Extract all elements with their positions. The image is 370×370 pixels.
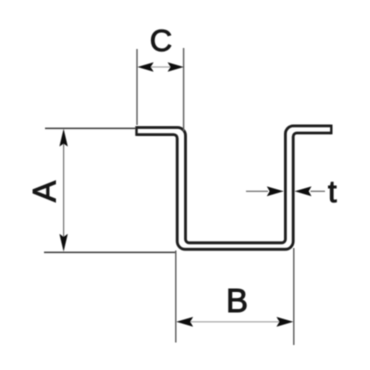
dimension A: bottom extension line [44,251,176,253]
left flange tip end cap [135,126,137,136]
dimension t: right leader line [311,190,326,192]
dimension B: left extension line [175,251,177,343]
dimension C: right extension line [183,48,185,131]
dimension C: right arrowhead [168,62,184,72]
dimension A: top extension line [45,127,136,129]
right flange tip end cap [330,125,332,135]
svg-text:t: t [328,174,337,209]
dimension A: bottom arrowhead [59,234,67,252]
dimension B: left arrowhead [176,317,193,327]
svg-text:B: B [226,282,248,319]
dimension C: dimension line shaft [141,66,180,68]
dimension t: left arrowhead (points right at web) [267,186,284,196]
dimension C: left arrowhead [137,62,153,72]
dimension A: dimension line shaft [63,131,65,249]
svg-text:A: A [27,180,63,202]
dimension C: left extension line [136,49,138,125]
dimension B: dimension line shaft [180,321,290,323]
hat-channel profile: outer surface (flange bottoms, web outer faces, bottom outer face) [137,133,332,249]
dimension A: top arrowhead [59,129,67,147]
dimension B: right arrowhead [277,317,294,327]
dimension t: left leader line [246,190,268,192]
dimension t: right arrowhead (points left at web) [295,186,312,196]
dimension B: right extension line [293,248,295,345]
svg-text:C: C [150,23,172,58]
hat-channel profile: cavity-side surface (flange tops, web inner faces, bottom inner face) [137,126,332,243]
